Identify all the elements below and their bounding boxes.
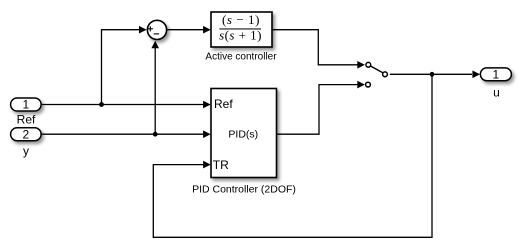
sum block S1 (147, 20, 166, 39)
arrowhead into Active controller (203, 26, 211, 34)
wire switch common to Outport u (390, 73, 472, 75)
svg-text:1: 1 (493, 68, 500, 82)
svg-text:(s − 1): (s − 1) (222, 12, 260, 27)
inport 2 (y) oval (11, 128, 41, 141)
manual switch: diagonal arm (371, 66, 383, 73)
svg-text:2: 2 (23, 127, 30, 141)
transfer function block Active controller (211, 12, 272, 47)
sum plus sign (148, 26, 153, 31)
svg-text:PID Controller (2DOF): PID Controller (2DOF) (192, 184, 296, 196)
svg-text:y: y (23, 144, 29, 158)
wire feedback from output down and around to PID TR input (153, 74, 432, 237)
arrowhead into Outport u (472, 71, 480, 79)
svg-text:u: u (493, 86, 500, 100)
wire y from Inport 2 to PID second input (41, 133, 204, 135)
outport 1 (u) oval (480, 68, 511, 81)
wire y branch up to Sum - input (154, 48, 156, 134)
arrowhead into Sum - input (pointing up) (151, 41, 159, 49)
sum minus sign (154, 33, 159, 35)
svg-text:TR: TR (213, 158, 229, 172)
node junction on Ref wire (99, 102, 104, 107)
node junction on y wire (153, 132, 158, 137)
switch bottom contact (366, 82, 371, 87)
wire Ref branch up to Sum + input (102, 30, 140, 105)
svg-text:PID(s): PID(s) (228, 128, 258, 140)
svg-text:1: 1 (23, 98, 30, 112)
switch top contact (366, 62, 371, 67)
svg-text:s(s + 1): s(s + 1) (219, 28, 262, 43)
wire Sum output to Active controller (167, 29, 203, 31)
arrowhead into PID second input (203, 130, 211, 138)
arrowhead into PID TR input (203, 161, 211, 169)
node junction on output wire (430, 72, 435, 77)
arrowhead into switch bottom contact (357, 81, 365, 89)
wire Ref from Inport 1 to PID Ref input (41, 104, 204, 106)
arrowhead into switch top contact (357, 61, 365, 69)
svg-text:Ref: Ref (17, 113, 36, 127)
switch common contact (383, 72, 388, 77)
PID controller block (211, 89, 277, 178)
wire PID output to switch bottom contact (277, 85, 358, 135)
svg-text:Active controller: Active controller (205, 52, 277, 63)
arrowhead into Sum + input (139, 26, 147, 34)
tf fraction bar (219, 28, 261, 30)
arrowhead into PID Ref input (203, 101, 211, 109)
wire Active controller output to switch top contact (272, 30, 358, 65)
svg-text:Ref: Ref (214, 97, 233, 111)
inport 1 (Ref) oval (11, 98, 41, 111)
